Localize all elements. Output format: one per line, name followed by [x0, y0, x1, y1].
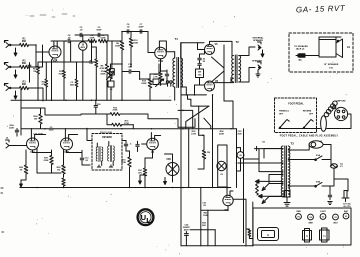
resistor R8 470K — [100, 64, 109, 74]
wire right net — [244, 149, 284, 159]
cap C10 .047 — [128, 64, 133, 73]
svg-text:20M: 20M — [237, 133, 241, 135]
label T1 — [175, 37, 179, 41]
svg-text:1M: 1M — [33, 71, 36, 73]
wire R9 R10 down — [122, 47, 131, 100]
input jack J2 — [4, 62, 14, 70]
phone plug P4 — [296, 54, 309, 62]
transformer T1 secondary — [181, 43, 204, 87]
vertical x246 — [245, 199, 247, 246]
label C10 .0047 — [33, 133, 43, 136]
speaker magnet — [319, 39, 343, 58]
pilot lamp I1 — [309, 141, 323, 148]
label cable assembly — [280, 135, 339, 138]
B+ rail upper — [75, 34, 108, 36]
svg-text:250K: 250K — [219, 133, 224, 135]
label reverb — [102, 137, 112, 139]
svg-text:LIGHT: LIGHT — [320, 211, 327, 213]
wire y110 — [178, 110, 193, 128]
wire R1 to grid node — [29, 45, 50, 67]
wire V3A right down — [37, 149, 61, 174]
transformer T1 primary — [173, 52, 175, 100]
cap C14 .5 — [124, 141, 132, 152]
wire into reverb — [87, 128, 126, 140]
triode V1B — [155, 47, 167, 63]
volume pot arrow — [156, 79, 164, 87]
switch reverb — [303, 120, 313, 129]
wire plug to speaker — [309, 48, 319, 56]
output trans top view — [258, 228, 279, 241]
svg-text:500K: 500K — [59, 73, 64, 75]
tall rect vibrato — [218, 145, 227, 187]
svg-text:FOOT PEDAL, CABLE AND PLUG ASS: FOOT PEDAL, CABLE AND PLUG ASSEMBLY — [280, 135, 339, 138]
scan smudge top left — [30, 14, 75, 17]
svg-text:S1A: S1A — [316, 154, 321, 157]
resistor R5 100K — [88, 35, 97, 43]
tube socket V3 top — [320, 211, 327, 220]
ground spk jack — [256, 70, 260, 77]
wire pot to C10 — [112, 64, 122, 72]
can cap 20MFD — [237, 148, 244, 163]
wire R2 join — [29, 45, 37, 67]
ground T3 chassis — [284, 197, 290, 206]
resistor R10 100K — [129, 32, 138, 48]
diag V5 to x224 — [212, 57, 225, 68]
staircase wire — [120, 114, 178, 127]
svg-text:SPEAKER: SPEAKER — [252, 60, 262, 63]
label foot pedal — [288, 103, 304, 106]
speaker jack J5 — [252, 60, 262, 71]
capacitor C3 500PF — [96, 27, 102, 37]
labels cap cluster right — [237, 131, 242, 135]
wire pot top — [111, 64, 113, 70]
svg-text:4.7M: 4.7M — [191, 132, 196, 135]
ground mid — [139, 177, 142, 184]
wire V3A top — [31, 129, 45, 140]
svg-text:T2: T2 — [235, 40, 239, 44]
wire V6 plate to T2 — [213, 78, 231, 83]
svg-text:T1: T1 — [175, 37, 179, 41]
vertical x38 — [33, 62, 39, 100]
wire pedal out — [285, 128, 321, 130]
triode V1A — [49, 46, 61, 63]
ground osc — [164, 178, 167, 185]
reverb ground marks — [97, 165, 112, 167]
heater tap arrow 1 — [255, 180, 283, 184]
svg-text:100K: 100K — [115, 46, 121, 48]
long rail y128 — [21, 128, 237, 130]
wire R7 top — [92, 41, 97, 62]
label 10 speaker — [324, 63, 339, 70]
svg-text:150K: 150K — [121, 162, 126, 164]
vertical wire x70.6 — [70, 41, 72, 62]
svg-text:250P: 250P — [138, 27, 144, 29]
capacitor C6 .02 — [126, 24, 130, 33]
labels above rect — [219, 131, 224, 135]
resistor R27 220K — [44, 150, 54, 173]
svg-text:FOOT PEDAL: FOOT PEDAL — [288, 103, 304, 106]
transformer T3 core — [285, 146, 287, 197]
vertical x224 screen — [223, 45, 225, 101]
svg-text:100K: 100K — [133, 43, 139, 45]
AC plug — [342, 191, 352, 209]
wire S1B — [288, 179, 334, 186]
resistor R16 270K — [107, 114, 133, 126]
resistor R12 cathode — [153, 72, 162, 80]
heater tap arrow 2 — [258, 194, 283, 198]
switch S2 box — [150, 79, 159, 85]
svg-text:1M: 1M — [57, 169, 60, 171]
svg-text:100K: 100K — [100, 38, 106, 40]
wire V4 pins — [142, 133, 161, 145]
wire V1B grid — [148, 47, 155, 53]
wire C10 — [122, 72, 140, 80]
transformer T2 core — [235, 55, 237, 83]
triode V6B — [223, 195, 233, 212]
wire V5 grid — [198, 43, 205, 50]
resistor R6 100K — [99, 35, 108, 43]
fuse F1 1A — [331, 163, 344, 169]
wire T2 pri ends — [231, 81, 234, 84]
foot pedal dashed box — [275, 98, 317, 133]
wire jack to V3A — [10, 145, 27, 147]
diag V6 to x224 — [213, 71, 225, 81]
label cluster bottom left — [183, 224, 190, 232]
ground jack J3 — [14, 91, 17, 99]
wire J3 to R3 — [14, 87, 20, 89]
cable sheath — [321, 116, 327, 132]
svg-text:10" SPEAKER: 10" SPEAKER — [324, 63, 339, 66]
transformer T2 primary — [232, 56, 234, 82]
component box x109 — [110, 64, 115, 78]
wire right mid — [259, 159, 283, 172]
vertical x215.2 — [214, 230, 216, 246]
wire V3B top — [65, 129, 77, 140]
label T3 — [290, 142, 294, 146]
wire pot bottom — [110, 79, 113, 100]
wire R12 gnd — [160, 80, 162, 85]
resistor R28 1M — [57, 150, 66, 177]
label tremolo off — [279, 111, 289, 116]
choke top view — [303, 229, 312, 243]
heater coil — [256, 181, 259, 195]
wire r30 join — [126, 150, 130, 152]
svg-text:25M: 25M — [70, 84, 74, 86]
cap C9 bypass — [161, 70, 169, 84]
cap C12 + R label — [9, 124, 19, 136]
svg-text:REVERB: REVERB — [102, 137, 112, 139]
label reverb off — [303, 111, 314, 116]
wire R8 down — [106, 74, 108, 100]
svg-text:68K: 68K — [22, 84, 27, 86]
label amp end — [336, 100, 346, 103]
wire x64 down — [63, 78, 65, 100]
svg-text:5W: 5W — [198, 72, 201, 74]
transformer T3 secondary — [288, 146, 290, 197]
label C9 .0022 — [48, 127, 54, 131]
transformer T1 core — [177, 58, 179, 88]
svg-text:250K: 250K — [141, 83, 147, 85]
svg-text:AMP END: AMP END — [336, 100, 346, 103]
wire x224 elbow — [224, 101, 233, 129]
speaker wire top — [319, 37, 341, 42]
heater arrows — [262, 184, 269, 204]
wire trem net — [33, 150, 83, 153]
transformer T3 primary — [281, 146, 283, 197]
AC line cap C22 — [328, 186, 332, 205]
label row above reverb — [100, 132, 112, 134]
switch tremolo — [279, 120, 289, 129]
svg-text:100K: 100K — [203, 215, 208, 217]
vertical x112 — [111, 41, 113, 64]
cap C15 — [136, 141, 139, 151]
svg-text:GA- 15 RVT: GA- 15 RVT — [296, 4, 346, 15]
input jack J3 — [4, 83, 14, 91]
bottom wire y245.8 — [181, 245, 253, 247]
tube socket V5 top — [296, 211, 302, 220]
vertical x21 jack3 — [20, 88, 22, 135]
upper rail 2 — [122, 31, 148, 33]
svg-text:220K: 220K — [44, 160, 49, 162]
tube socket V2 top — [333, 214, 339, 224]
wire vol to V1B — [140, 64, 159, 79]
connector plug P1 — [333, 106, 348, 121]
resistor R13 250K — [141, 79, 151, 88]
wire V1B plate — [159, 41, 174, 52]
wire J3 run — [29, 88, 44, 101]
labels bias1 — [202, 203, 207, 207]
ground jack J1 — [14, 48, 17, 56]
wire plug loop — [327, 114, 352, 129]
bottom rail trem — [20, 187, 231, 189]
resistor mid 1M — [198, 135, 210, 169]
labels bias3 — [202, 222, 207, 227]
resistor R21 500K — [59, 70, 66, 78]
wire plate rail — [51, 40, 67, 42]
diag wire B — [204, 118, 211, 129]
wire V6B right — [233, 198, 246, 200]
wire rail2 right — [147, 32, 149, 47]
wire rail lower — [81, 40, 88, 42]
wire V1A plate up — [54, 41, 57, 48]
resistor R7 1.5K — [89, 52, 98, 100]
wire R13 — [149, 74, 151, 100]
chassis box — [253, 208, 351, 245]
thermistor box — [284, 191, 290, 198]
switch circles pair — [166, 81, 172, 86]
coiled cable — [324, 101, 337, 117]
labels bias2 — [203, 212, 208, 217]
svg-text:TREMOLO: TREMOLO — [279, 111, 289, 113]
wire screen net — [200, 51, 205, 85]
transformer T2 secondary — [239, 56, 241, 82]
switch S1B — [315, 182, 326, 188]
filter cap C19 16MFD — [79, 35, 87, 100]
svg-text:47K: 47K — [42, 83, 46, 86]
speaker assembly dashed box — [289, 33, 353, 72]
wire T2 sec to jacks — [239, 47, 255, 82]
ext speaker jack J4 — [253, 37, 265, 51]
wire V6B pins — [227, 188, 233, 211]
svg-text:500P: 500P — [96, 30, 102, 32]
vertical x236.5 — [236, 129, 238, 188]
svg-text:220K: 220K — [9, 127, 14, 129]
caps near V5 25MFD — [198, 58, 206, 65]
svg-text:2.7K: 2.7K — [153, 76, 158, 78]
wire C4 to node — [71, 40, 81, 42]
jack J6 — [6, 138, 10, 149]
ground jack J2 — [14, 70, 17, 78]
comp below label — [184, 232, 188, 246]
vertical x198.7 — [198, 106, 200, 135]
wire V1B cathode — [160, 59, 162, 72]
triode V3A — [27, 138, 39, 154]
wire fuse down — [331, 160, 348, 192]
svg-text:1M: 1M — [207, 152, 210, 154]
wire V5 plate to T2 — [210, 41, 233, 56]
svg-text:T3: T3 — [290, 142, 294, 146]
wire gnd mid — [140, 175, 145, 177]
wire rail2 drop left — [112, 32, 122, 42]
svg-text:450V: 450V — [80, 46, 85, 49]
vertical x188.7 — [188, 129, 190, 188]
svg-text:68K: 68K — [22, 41, 27, 43]
capacitor C2 .02 — [79, 27, 83, 37]
svg-text:JACK J5: JACK J5 — [296, 48, 305, 51]
tube socket V4 top — [308, 214, 314, 224]
ground ext jack — [261, 50, 264, 57]
vertical x207.9 bias — [207, 210, 209, 246]
vertical x212.5 — [212, 95, 214, 188]
vertical wire x64 — [63, 41, 65, 70]
cathode bus y62 — [38, 61, 96, 63]
wire ch2 top — [21, 108, 81, 115]
capacitor C7 250PF — [138, 24, 144, 33]
bottom rail ch1 — [11, 99, 151, 101]
svg-text:56K: 56K — [202, 225, 206, 227]
resistor R31 — [138, 158, 147, 187]
svg-text:1.5K: 1.5K — [89, 63, 94, 65]
svg-text:S1B: S1B — [316, 182, 321, 184]
svg-text:68K: 68K — [22, 63, 27, 65]
cap box C8 — [108, 81, 114, 91]
reverb output coil — [108, 142, 115, 166]
wire J2 to R2 — [14, 66, 20, 68]
svg-text:220K: 220K — [113, 110, 118, 112]
wire osc — [165, 154, 173, 182]
label T2 — [235, 40, 239, 44]
resistor R1 68K — [20, 39, 29, 47]
cap C13 .02 — [80, 151, 90, 166]
vert res R24 1M — [33, 108, 42, 129]
cap C11 250PF — [94, 100, 101, 114]
resistor R29 — [62, 178, 65, 188]
resistor R26 — [19, 150, 28, 180]
wire y95 — [181, 94, 206, 96]
svg-text:VIBR: VIBR — [296, 211, 301, 213]
wire T1 sec bottom — [181, 87, 187, 95]
resistor R2 68K — [20, 61, 29, 69]
staircase out — [188, 95, 210, 106]
wire J1 to R1 — [14, 44, 20, 46]
capacitor C4 .02 — [67, 34, 71, 43]
resistor R3 68K — [20, 82, 29, 90]
small comp S1 tick — [255, 142, 266, 151]
wire T3 left taps — [238, 149, 283, 197]
wire S1A — [288, 155, 331, 160]
triode V3B — [61, 138, 73, 154]
resistor R30 150K — [121, 151, 131, 187]
reverb input coil — [96, 143, 103, 166]
UL logo — [138, 209, 154, 225]
diag wire A — [186, 106, 209, 129]
resistor between — [246, 229, 253, 239]
wire T3 right top — [288, 145, 309, 151]
svg-text:450V: 450V — [184, 229, 189, 232]
switch S1A — [315, 154, 326, 161]
power trans top view — [320, 228, 330, 242]
label G1 — [347, 47, 351, 49]
resistor R15 220K — [110, 107, 120, 115]
svg-text:REVERB: REVERB — [303, 111, 312, 113]
svg-text:1M: 1M — [34, 119, 37, 121]
vertical x107 — [106, 41, 108, 64]
svg-text:470K: 470K — [100, 67, 105, 70]
ground V3A cath — [20, 180, 23, 187]
svg-text:.0022: .0022 — [48, 129, 54, 131]
pot R14 250K — [100, 70, 114, 80]
svg-text:VIBR: VIBR — [308, 222, 313, 224]
wire V4 cath — [145, 150, 153, 158]
svg-text:L: L — [146, 216, 151, 225]
triode V4 reverb — [147, 138, 159, 154]
staircase wire 2 — [133, 119, 195, 129]
wire y230 bias — [190, 229, 215, 231]
svg-text:SPEAKER: SPEAKER — [253, 39, 263, 42]
vertical x51 cathode — [52, 58, 58, 100]
wire lamp right — [323, 145, 331, 155]
scan smudge left edge — [1, 188, 4, 232]
resistor R9 100K — [115, 41, 124, 50]
reverb dashed box — [92, 134, 122, 171]
oscillator tube V2B — [166, 159, 179, 176]
svg-text:V2B: V2B — [166, 159, 171, 161]
input jack J1 — [4, 40, 14, 48]
vertical x200.8 bias — [200, 188, 202, 246]
wire rail to 112 — [107, 35, 112, 41]
svg-text:TO SPEAKER: TO SPEAKER — [294, 45, 308, 48]
title GA-15 RVT — [296, 4, 346, 15]
vertical x243.5 long — [243, 129, 245, 243]
cap x29.5 — [28, 63, 31, 83]
tube socket V1 top — [343, 211, 349, 219]
label to speaker jack — [294, 45, 308, 51]
pentode V6 — [205, 80, 219, 91]
vertical x183 — [180, 43, 182, 246]
wire mid rail y100 ext — [151, 99, 171, 101]
svg-text:8 Ω: 8 Ω — [329, 68, 333, 70]
wire V6 grid — [195, 85, 205, 95]
svg-text:250K: 250K — [100, 74, 106, 76]
vertical x76.5 — [70, 62, 78, 100]
svg-text:100K: 100K — [89, 38, 95, 40]
wire y114 — [81, 113, 110, 115]
wire y210 bias — [201, 209, 228, 211]
vertical x252.8 — [252, 202, 254, 246]
wire can connect — [237, 148, 241, 171]
labels mid cluster — [191, 131, 196, 135]
pentode V5 — [205, 43, 219, 55]
